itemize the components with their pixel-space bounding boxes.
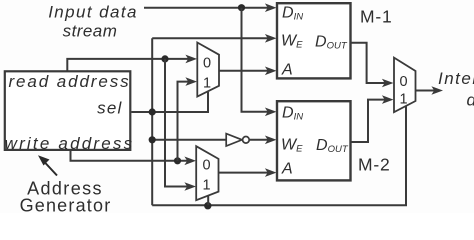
wire write address to mux U2 input 1 bbox=[178, 82, 190, 161]
mux U4 (output mux) bbox=[394, 58, 416, 113]
wire read address to mux U2 input 0 bbox=[67, 59, 189, 71]
svg-text:0: 0 bbox=[202, 158, 210, 174]
svg-text:data: data bbox=[467, 91, 474, 110]
svg-text:1: 1 bbox=[202, 178, 210, 194]
svg-text:1: 1 bbox=[203, 76, 211, 92]
node sel bus mux U3 bbox=[204, 202, 211, 209]
inverter U5 bbox=[226, 134, 249, 146]
wire M-2 Dout to mux U4 input 1 bbox=[351, 100, 386, 142]
wire write address to mux U3 input 0 bbox=[71, 151, 189, 161]
wire read address to mux U3 input 1 bbox=[165, 59, 188, 187]
wire sel to M-1 We bbox=[152, 37, 268, 39]
mux U2 (address mux for M-1) bbox=[197, 43, 219, 97]
svg-text:Generator: Generator bbox=[20, 196, 112, 214]
label "Interleaved data" bbox=[438, 69, 474, 110]
svg-text:write address: write address bbox=[5, 134, 135, 153]
svg-text:A: A bbox=[281, 62, 293, 79]
wire inverter to M-2 We bbox=[249, 139, 268, 141]
wire sel to inverter bbox=[152, 139, 226, 141]
node sel inverter branch bbox=[149, 136, 156, 143]
node input data branch bbox=[238, 4, 245, 11]
svg-text:M-2: M-2 bbox=[358, 155, 391, 175]
wire input data to M-1 Din bbox=[144, 7, 268, 9]
wire mux U3 out to M-2 A bbox=[219, 172, 269, 174]
callout arrow to address generator bbox=[38, 155, 57, 175]
memory M-2 bbox=[277, 101, 351, 180]
memory M-1 bbox=[277, 3, 351, 78]
svg-text:Input data: Input data bbox=[48, 3, 138, 22]
svg-text:A: A bbox=[281, 161, 293, 178]
node sel trunk bbox=[149, 108, 156, 115]
svg-text:0: 0 bbox=[203, 56, 211, 72]
wire mux U2 out to M-1 A bbox=[219, 70, 268, 72]
node write address branch bbox=[174, 157, 181, 164]
wire mux U3 select stub bbox=[207, 196, 209, 206]
wire input data to M-2 Din bbox=[242, 8, 269, 112]
label "Input data stream" bbox=[48, 3, 138, 41]
node read address branch bbox=[161, 55, 168, 62]
svg-text:sel: sel bbox=[97, 99, 122, 118]
svg-text:Interleaved: Interleaved bbox=[438, 69, 474, 88]
svg-text:read address: read address bbox=[9, 72, 131, 91]
label "Address Generator" bbox=[20, 179, 112, 216]
wire sel bottom bus bbox=[152, 106, 406, 205]
svg-text:M-1: M-1 bbox=[360, 7, 393, 27]
svg-text:0: 0 bbox=[399, 74, 407, 90]
wire sel from box bbox=[131, 92, 208, 112]
svg-text:stream: stream bbox=[63, 22, 118, 41]
wire M-1 Dout to mux U4 input 0 bbox=[351, 43, 386, 83]
mux U3 (address mux for M-2) bbox=[196, 146, 218, 200]
svg-text:1: 1 bbox=[399, 92, 407, 108]
wire mux U4 output bbox=[416, 90, 436, 92]
address generator box U1 bbox=[5, 71, 131, 150]
wire sel vertical trunk bbox=[151, 38, 153, 205]
